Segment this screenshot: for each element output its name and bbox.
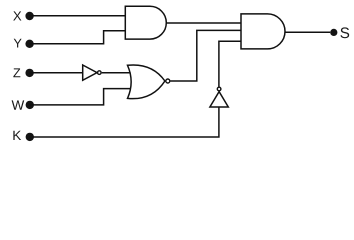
wire NOT2 output to AND2 input 3 (219, 41, 241, 86)
inverter NOT1 bubble (98, 71, 102, 75)
node W terminal dot (26, 101, 34, 109)
wire AND2 output to node S (285, 31, 330, 33)
wire Y to AND1 input 2 (step up at x=103.6) (30, 31, 126, 44)
wire AND1 output to AND2 input 1 (166, 22, 241, 24)
inverter NOT1 triangle (83, 65, 97, 80)
NOR gate NOR1 output bubble (166, 79, 170, 83)
node Z label (13, 68, 20, 77)
AND gate AND2 body (241, 14, 285, 49)
node X label (13, 11, 21, 20)
wire NOT1 output to NOR1 input 1 (102, 72, 131, 74)
node W label (12, 100, 25, 109)
wire W to NOR1 input 2 (step up at x=104) (30, 89, 131, 105)
wire NOR1 output to AND2 input 2 (up at x=196.5) (170, 30, 241, 81)
inverter NOT2 triangle (vertical, pointing up) (210, 92, 228, 107)
node Y terminal dot (25, 40, 33, 48)
AND gate AND1 body (125, 6, 166, 39)
wire X to AND1 input 1 (30, 15, 126, 17)
node X terminal dot (25, 12, 33, 20)
node S terminal dot (330, 29, 337, 36)
node S label (340, 27, 349, 38)
node Z terminal dot (25, 69, 33, 77)
wire Z to NOT1 input (30, 72, 83, 74)
node K terminal dot (26, 133, 34, 141)
NOR gate NOR1 body (128, 65, 165, 99)
node Y label (14, 39, 22, 48)
wire K to NOT2 input (up at x=218.9) (30, 107, 219, 137)
node K label (13, 131, 21, 140)
inverter NOT2 bubble (217, 87, 221, 91)
